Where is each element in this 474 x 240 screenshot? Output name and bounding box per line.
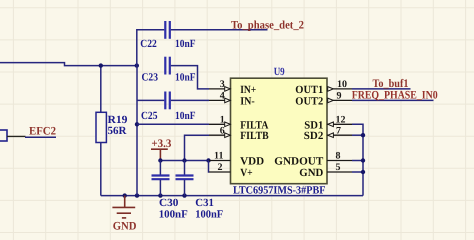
svg-text:U9: U9 <box>274 66 285 78</box>
wire GND rail <box>101 195 363 197</box>
svg-text:C30: C30 <box>159 197 179 209</box>
svg-text:7: 7 <box>336 125 341 136</box>
wire C22 to net To_phase_det_2 <box>171 29 268 31</box>
svg-text:V+: V+ <box>240 167 253 179</box>
svg-text:11: 11 <box>214 151 223 162</box>
junction gnd symbol <box>123 193 127 197</box>
pin 1 FILTA <box>209 123 231 125</box>
svg-text:C25: C25 <box>141 110 158 122</box>
svg-text:10nF: 10nF <box>175 110 196 122</box>
pin 12 SD1 <box>327 123 352 125</box>
wire GNDOUT to vertical <box>352 160 363 162</box>
pin 2 V+ <box>209 171 231 173</box>
pin 6 FILTB <box>209 134 231 136</box>
wire input net (left entry with jog) <box>0 63 137 66</box>
pin 7 SD2 <box>327 134 352 136</box>
pin 9 OUT2 <box>327 99 352 101</box>
wire V+ branch <box>208 161 211 173</box>
capacitor C30 <box>159 161 161 176</box>
svg-text:C31: C31 <box>195 197 214 209</box>
svg-text:To_phase_det_2: To_phase_det_2 <box>231 19 304 31</box>
junction input/R19 <box>99 63 103 67</box>
svg-text:9: 9 <box>337 91 342 102</box>
svg-text:OUT2: OUT2 <box>295 95 323 107</box>
junction input branch C22/C25 <box>135 63 139 67</box>
wire C25 left <box>137 99 164 101</box>
svg-text:1: 1 <box>220 115 225 126</box>
junction FILTA drop / gnd rail <box>135 193 139 197</box>
pin 3 IN+ <box>209 88 231 90</box>
pin 8 GNDOUT <box>327 160 352 162</box>
junction V+ branch <box>206 158 210 162</box>
junction FILTA branch <box>135 122 139 126</box>
wire OUT1 to net To_buf1 <box>352 88 411 90</box>
junction FILTB/C31 <box>182 158 186 162</box>
svg-text:2: 2 <box>218 162 223 173</box>
svg-text:12: 12 <box>336 115 346 126</box>
svg-text:C22: C22 <box>140 38 157 50</box>
junction +3.3/C30 <box>158 158 162 162</box>
wire VDD rail <box>160 160 209 162</box>
svg-text:FREQ_PHASE_IN0: FREQ_PHASE_IN0 <box>352 89 438 101</box>
op IC U9 body <box>231 78 328 184</box>
svg-text:OUT1: OUT1 <box>295 84 323 96</box>
svg-text:10nF: 10nF <box>175 72 196 84</box>
pin 10 OUT1 <box>327 88 352 90</box>
wire C25 to pin IN- <box>171 99 209 101</box>
svg-text:56R: 56R <box>108 125 128 137</box>
svg-text:EFC2: EFC2 <box>29 125 56 137</box>
svg-text:5: 5 <box>336 162 341 173</box>
junction C31 / gnd rail <box>182 193 186 197</box>
svg-text:IN+: IN+ <box>240 84 256 96</box>
wire FILTB to +3.3 rail <box>185 135 210 160</box>
wire net EFC2 <box>25 136 56 138</box>
svg-text:LTC6957IMS-3#PBF: LTC6957IMS-3#PBF <box>233 184 326 196</box>
svg-text:GND: GND <box>113 221 137 233</box>
pin 4 IN- <box>209 99 231 101</box>
junction SD2 <box>361 133 365 137</box>
svg-text:C23: C23 <box>142 72 159 84</box>
svg-text:8: 8 <box>336 151 341 162</box>
junction GND pin <box>361 170 365 174</box>
wire C23 to pin IN+ <box>171 66 209 89</box>
wire vertical branch to C25/FILTA/gnd <box>136 66 138 196</box>
resistor R19 <box>96 112 106 142</box>
wire GND pin to vertical <box>352 171 363 173</box>
svg-text:100nF: 100nF <box>159 209 188 221</box>
junction C30 / gnd rail <box>158 193 162 197</box>
pin 5 GND <box>327 171 352 173</box>
ground GND symbol <box>112 196 135 218</box>
wire port EFC2 stub <box>7 135 26 137</box>
svg-text:4: 4 <box>220 91 225 102</box>
capacitor C23 <box>165 57 170 75</box>
svg-text:GNDOUT: GNDOUT <box>274 156 324 168</box>
svg-text:IN-: IN- <box>240 95 255 107</box>
wire SD1 down to gnd rail <box>352 124 363 195</box>
svg-text:GND: GND <box>299 167 323 179</box>
wire FILTA <box>137 123 209 125</box>
capacitor C22 <box>165 21 170 39</box>
wire R19 bottom to gnd rail <box>100 143 102 196</box>
svg-text:100nF: 100nF <box>195 209 223 221</box>
pin 11 VDD <box>209 160 231 162</box>
port EFC2 <box>0 130 7 141</box>
wire SD2 to vertical <box>352 134 363 136</box>
svg-text:10nF: 10nF <box>175 38 196 50</box>
svg-text:VDD: VDD <box>240 156 264 168</box>
junction GNDOUT <box>361 158 365 162</box>
svg-text:+3.3: +3.3 <box>151 138 171 150</box>
svg-text:SD2: SD2 <box>304 130 324 142</box>
svg-text:10: 10 <box>337 79 347 90</box>
wire OUT2 to net FREQ_PHASE_IN0 <box>352 99 434 101</box>
svg-text:FILTB: FILTB <box>240 130 269 142</box>
svg-text:6: 6 <box>220 125 225 136</box>
power +3.3 <box>151 149 168 160</box>
capacitor C31 <box>184 161 186 176</box>
svg-text:3: 3 <box>220 79 225 90</box>
svg-text:To_buf1: To_buf1 <box>373 78 409 90</box>
capacitor C25 <box>165 92 170 110</box>
wire C22 branch up <box>137 30 165 66</box>
wire R19 top <box>100 66 102 113</box>
